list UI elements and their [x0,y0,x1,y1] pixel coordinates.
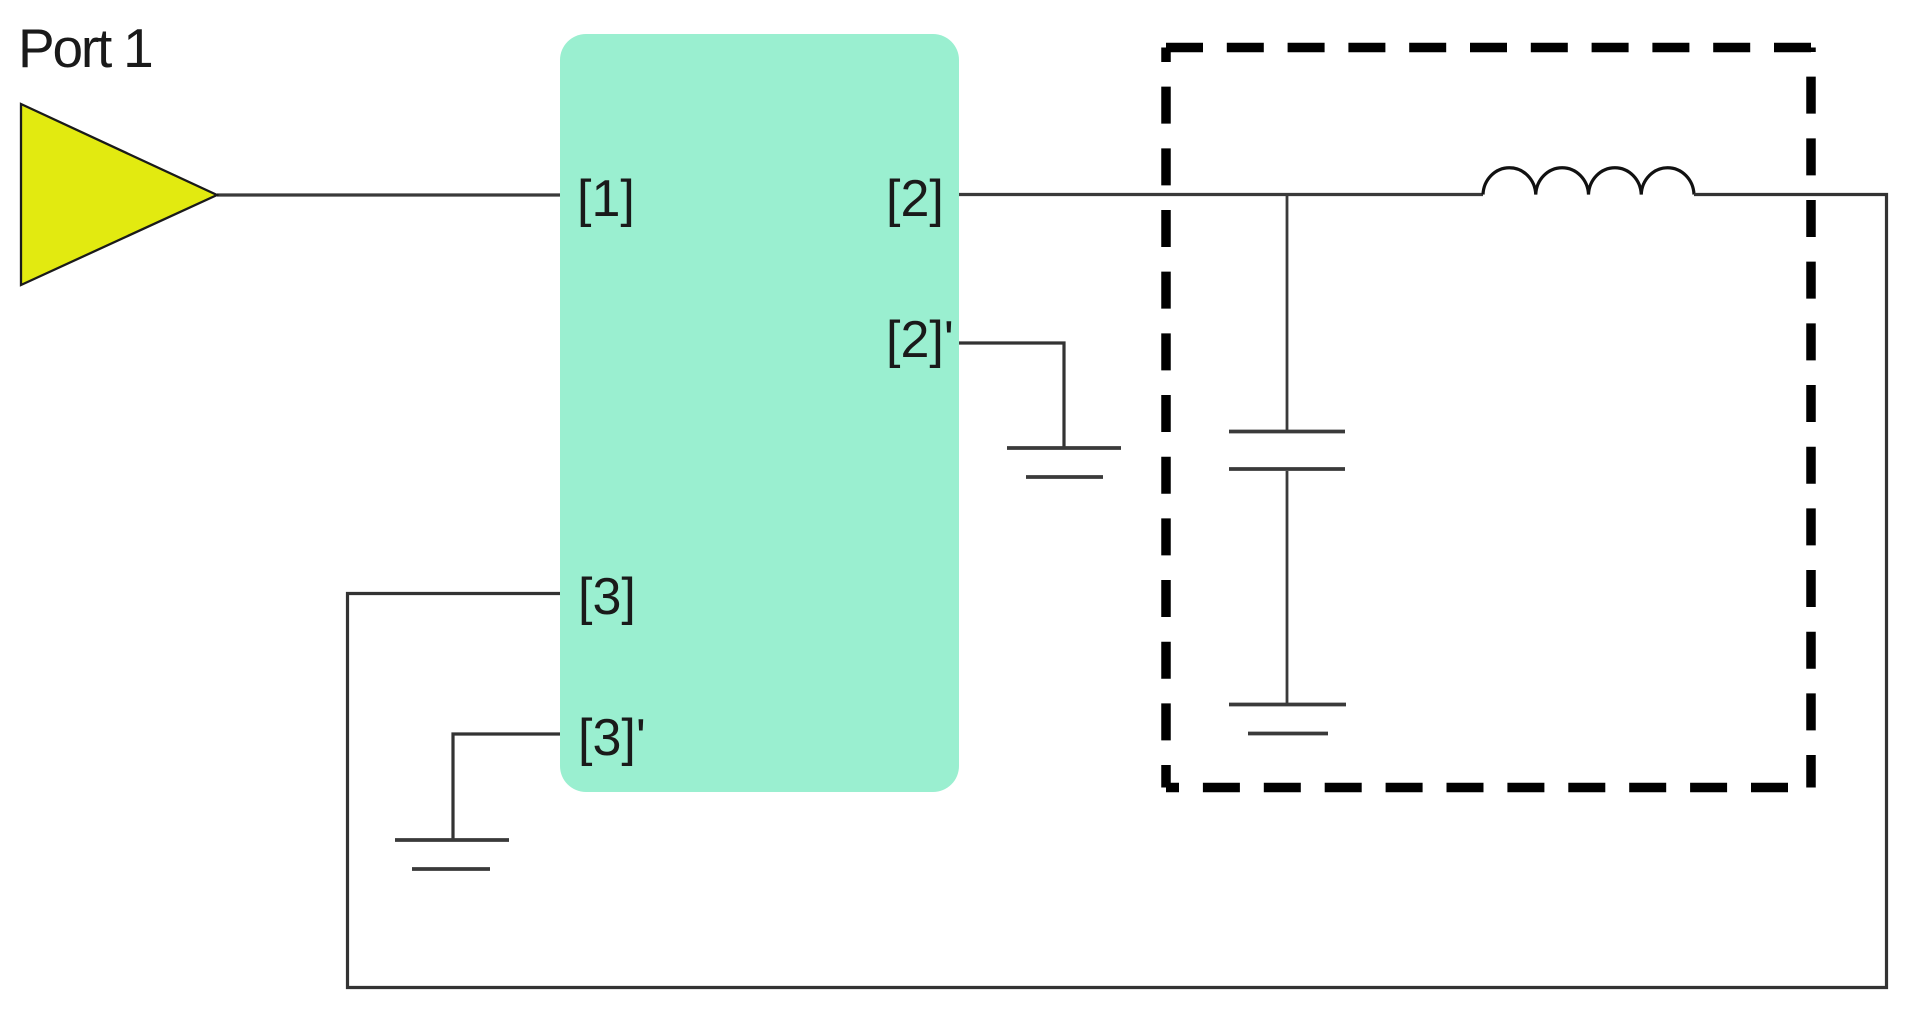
svg-text:[3]: [3] [578,568,636,626]
svg-text:[2]': [2]' [886,311,954,369]
svg-text:Port 1: Port 1 [18,17,152,79]
svg-text:[3]': [3]' [578,709,646,767]
svg-text:[1]: [1] [577,170,635,228]
svg-text:[2]: [2] [886,170,944,228]
